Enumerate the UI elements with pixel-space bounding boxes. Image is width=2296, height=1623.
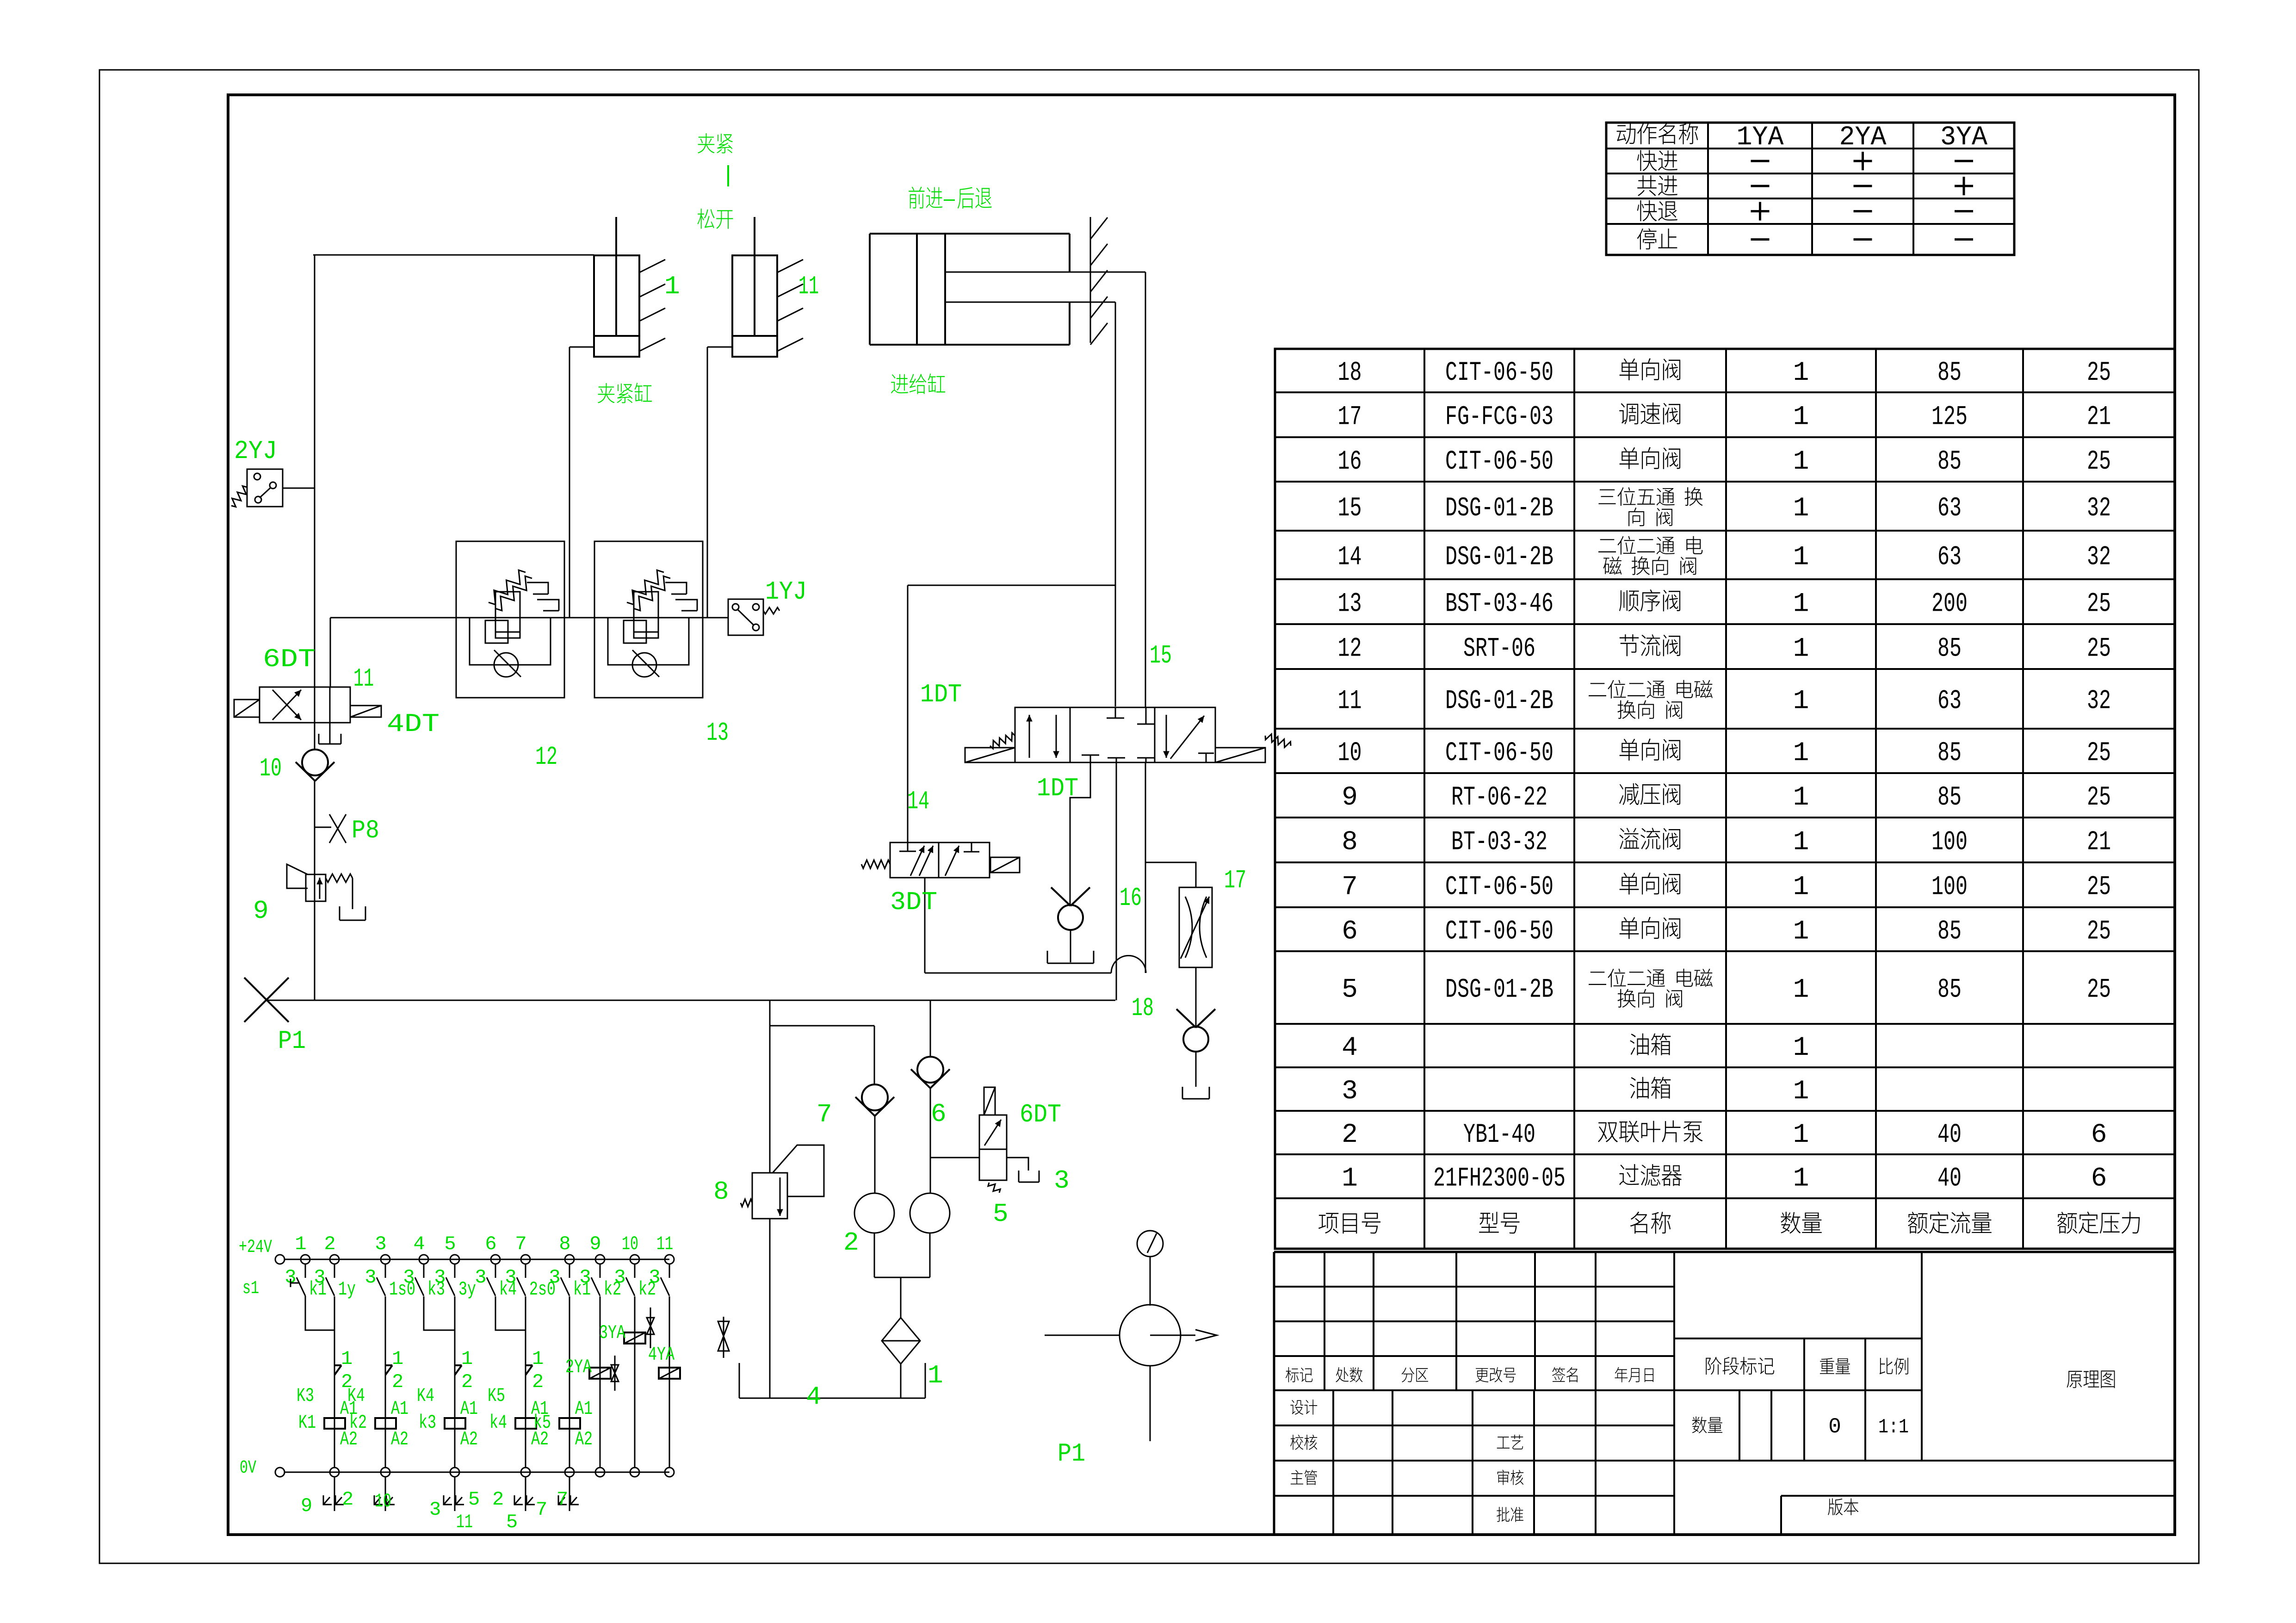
svg-text:DSG-01-2B: DSG-01-2B <box>1445 687 1553 717</box>
directional valve 15 (3-pos 5-way) <box>1015 707 1215 762</box>
svg-text:9: 9 <box>1342 783 1358 813</box>
svg-text:11: 11 <box>1338 687 1362 717</box>
terminal circle col 8 <box>565 1255 574 1264</box>
jog col1 to col2 <box>305 1296 334 1330</box>
svg-text:7: 7 <box>1342 873 1358 903</box>
svg-text:63: 63 <box>1937 543 1962 573</box>
svg-text:CIT-06-50: CIT-06-50 <box>1445 358 1553 388</box>
svg-text:1: 1 <box>1793 1033 1809 1063</box>
svg-text:4DT: 4DT <box>387 709 439 739</box>
svg-text:85: 85 <box>1937 975 1962 1005</box>
top contact k3 <box>423 1264 425 1278</box>
bottom terminal <box>665 1468 674 1477</box>
svg-text:CIT-06-50: CIT-06-50 <box>1445 917 1553 947</box>
limit switch below rail <box>569 1477 570 1511</box>
solenoid 2YA <box>589 1368 611 1379</box>
terminal circle col 5 <box>450 1255 459 1264</box>
relay coil k5 <box>559 1418 580 1429</box>
svg-text:7: 7 <box>557 1488 568 1511</box>
svg-text:15: 15 <box>1150 641 1172 670</box>
svg-text:1: 1 <box>1793 1164 1809 1194</box>
svg-text:1DT: 1DT <box>920 680 962 709</box>
svg-text:63: 63 <box>1937 494 1962 524</box>
svg-text:5: 5 <box>444 1233 456 1255</box>
svg-text:3: 3 <box>1054 1166 1070 1196</box>
svg-text:1: 1 <box>928 1361 943 1390</box>
svg-text:3: 3 <box>475 1266 486 1288</box>
feed cylinder 进给缸 <box>870 233 1070 235</box>
svg-text:200: 200 <box>1931 589 1968 619</box>
top contact 1s0 <box>385 1264 386 1278</box>
hold contact K4 <box>385 1364 392 1366</box>
svg-text:9: 9 <box>589 1233 601 1255</box>
svg-text:DSG-01-2B: DSG-01-2B <box>1445 543 1553 573</box>
relay coil k3 <box>445 1418 465 1429</box>
relief valve 8 <box>769 1000 771 1173</box>
svg-text:K4: K4 <box>417 1385 434 1407</box>
svg-text:6: 6 <box>931 1099 947 1129</box>
svg-text:2: 2 <box>324 1233 335 1255</box>
svg-text:3: 3 <box>505 1266 516 1288</box>
svg-text:2: 2 <box>492 1488 504 1511</box>
svg-text:6: 6 <box>2091 1164 2107 1194</box>
label 进给缸 <box>891 374 908 394</box>
flow control valve 17 <box>1179 887 1212 967</box>
svg-text:40: 40 <box>1937 1120 1962 1150</box>
svg-text:7: 7 <box>515 1233 526 1255</box>
svg-text:85: 85 <box>1937 358 1962 388</box>
svg-text:6: 6 <box>2091 1120 2107 1150</box>
terminal circle col 2 <box>330 1255 339 1264</box>
svg-text:1: 1 <box>1793 1120 1809 1150</box>
relay coil K1 <box>324 1418 345 1429</box>
svg-text:P8: P8 <box>352 816 379 845</box>
check valve 10 <box>302 750 328 775</box>
tank under check 16 <box>1047 951 1048 963</box>
svg-text:11: 11 <box>353 664 374 694</box>
bottom terminal <box>330 1468 339 1477</box>
svg-text:5: 5 <box>506 1511 518 1533</box>
svg-text:3YA: 3YA <box>599 1322 626 1344</box>
wire valve15 B port down <box>1145 762 1146 973</box>
svg-text:CIT-06-50: CIT-06-50 <box>1445 447 1553 477</box>
svg-text:3: 3 <box>549 1266 560 1288</box>
svg-text:25: 25 <box>2087 783 2111 813</box>
svg-text:6: 6 <box>485 1233 496 1255</box>
jog col6 to col7 <box>495 1296 526 1330</box>
svg-text:1: 1 <box>1793 494 1809 524</box>
svg-text:9: 9 <box>253 896 269 926</box>
svg-text:25: 25 <box>2087 634 2111 664</box>
svg-text:K3: K3 <box>297 1385 314 1407</box>
svg-text:10: 10 <box>1338 738 1362 768</box>
solenoid 4YA <box>659 1368 680 1379</box>
label 夹紧缸 <box>598 383 615 403</box>
svg-text:1: 1 <box>1793 589 1809 619</box>
svg-text:8: 8 <box>1342 828 1358 858</box>
solenoid valve 5 (6DT) <box>930 1157 979 1158</box>
+24V terminal <box>275 1255 285 1264</box>
svg-text:25: 25 <box>2087 589 2111 619</box>
ladder column wire <box>600 1296 601 1468</box>
svg-text:100: 100 <box>1931 828 1968 858</box>
check valve 6 <box>930 1000 931 1057</box>
main left riser wire <box>314 255 316 687</box>
svg-text:2YA: 2YA <box>565 1356 592 1378</box>
svg-text:11: 11 <box>656 1233 673 1255</box>
svg-text:2YJ: 2YJ <box>234 436 277 466</box>
svg-text:16: 16 <box>1338 447 1362 477</box>
svg-text:11: 11 <box>456 1511 473 1533</box>
svg-text:1: 1 <box>1793 543 1809 573</box>
clamp cylinder 11 <box>732 255 777 357</box>
terminal circle col 7 <box>521 1255 530 1264</box>
svg-text:RT-06-22: RT-06-22 <box>1451 783 1547 813</box>
pump source mark P1 (X) <box>244 978 289 1022</box>
svg-text:1: 1 <box>664 272 680 301</box>
svg-text:1:1: 1:1 <box>1878 1416 1909 1439</box>
svg-text:85: 85 <box>1937 917 1962 947</box>
svg-text:P1: P1 <box>278 1026 306 1056</box>
label | <box>727 165 729 186</box>
relay coil k4 <box>515 1418 536 1429</box>
svg-text:YB1-40: YB1-40 <box>1463 1120 1535 1150</box>
wire cap-side of cylinder 1 <box>569 347 594 348</box>
svg-text:2: 2 <box>843 1228 859 1258</box>
drain shutoff near tank 4 <box>723 1317 724 1358</box>
sequence valve 12 <box>456 541 564 698</box>
0V terminal <box>275 1468 285 1477</box>
wire valve15 mid port to bus <box>1116 762 1117 1000</box>
valve 14 pilot wire to A line <box>907 585 909 842</box>
terminal circle col 6 <box>491 1255 500 1264</box>
svg-text:1: 1 <box>1793 1077 1809 1107</box>
terminal circle col 3 <box>381 1255 390 1264</box>
svg-text:4: 4 <box>806 1382 822 1412</box>
inner drawing frame <box>228 95 2175 1535</box>
svg-text:8: 8 <box>713 1177 729 1207</box>
bottom terminal <box>521 1468 530 1477</box>
terminal circle col 4 <box>419 1255 428 1264</box>
svg-text:21FH2300-05: 21FH2300-05 <box>1433 1164 1566 1194</box>
svg-text:18: 18 <box>1338 358 1362 388</box>
bottom pressure bus <box>266 1000 1115 1001</box>
svg-text:1: 1 <box>1793 447 1809 477</box>
check valve 7 <box>862 1084 888 1110</box>
svg-text:A1: A1 <box>460 1398 478 1420</box>
svg-text:1: 1 <box>1342 1164 1358 1194</box>
svg-text:32: 32 <box>2087 543 2111 573</box>
svg-text:0V: 0V <box>240 1458 256 1479</box>
reducing valve 9 <box>306 874 326 901</box>
svg-text:k3: k3 <box>419 1412 436 1434</box>
check valve 18 <box>1183 1027 1208 1052</box>
svg-text:4: 4 <box>413 1233 425 1255</box>
ladder column wire <box>569 1296 570 1468</box>
svg-text:1YJ: 1YJ <box>765 577 807 607</box>
svg-text:7: 7 <box>536 1499 547 1521</box>
svg-text:3: 3 <box>429 1499 441 1521</box>
sequence valve 13 <box>594 541 703 698</box>
valve 11 pilot riser <box>330 618 331 687</box>
svg-text:1: 1 <box>1793 634 1809 664</box>
svg-text:11: 11 <box>798 272 819 301</box>
svg-text:21: 21 <box>2087 828 2111 858</box>
svg-text:12: 12 <box>1338 634 1362 664</box>
wire cap-side of cylinder 11 <box>707 347 732 348</box>
svg-text:3: 3 <box>649 1266 660 1288</box>
svg-text:FG-FCG-03: FG-FCG-03 <box>1445 403 1553 433</box>
wire B to valve 15 <box>1145 272 1146 707</box>
svg-text:13: 13 <box>1338 589 1362 619</box>
ladder +24V rail <box>285 1259 669 1260</box>
pump symbol P1 <box>1120 1305 1181 1366</box>
ladder 0V rail <box>285 1472 669 1473</box>
valve 15 right solenoid <box>1215 748 1265 762</box>
svg-text:6DT: 6DT <box>1020 1100 1061 1129</box>
relay coil k2 <box>375 1418 396 1429</box>
svg-text:1: 1 <box>1793 873 1809 903</box>
svg-text:10: 10 <box>375 1490 391 1512</box>
svg-text:K5: K5 <box>488 1385 505 1407</box>
svg-text:16: 16 <box>1120 883 1142 913</box>
svg-text:7: 7 <box>817 1100 832 1129</box>
ladder column wire <box>669 1296 670 1468</box>
svg-text:85: 85 <box>1937 447 1962 477</box>
svg-text:s1: s1 <box>242 1278 259 1299</box>
svg-text:1: 1 <box>1793 783 1809 813</box>
svg-text:12: 12 <box>535 742 557 772</box>
top contact k1 <box>569 1264 570 1278</box>
svg-text:A1: A1 <box>575 1398 593 1420</box>
svg-text:4: 4 <box>1342 1033 1358 1063</box>
title block <box>1274 1251 2175 1253</box>
svg-text:CIT-06-50: CIT-06-50 <box>1445 738 1553 768</box>
svg-text:10: 10 <box>260 754 282 783</box>
bottom terminal <box>595 1468 605 1477</box>
svg-text:2YA: 2YA <box>1839 123 1887 153</box>
svg-text:5: 5 <box>468 1488 480 1511</box>
svg-text:1: 1 <box>461 1348 473 1370</box>
solenoid 3YA <box>624 1332 645 1344</box>
wire 17 to check 18 <box>1195 967 1197 1027</box>
svg-text:1YA: 1YA <box>1737 123 1784 153</box>
svg-text:2: 2 <box>461 1371 473 1393</box>
throttle P8 stub <box>315 827 331 828</box>
svg-text:3y: 3y <box>458 1278 476 1301</box>
svg-text:9: 9 <box>301 1495 312 1517</box>
svg-text:k5: k5 <box>533 1412 551 1434</box>
wire rod-side of cylinder 1 <box>313 254 594 256</box>
svg-text:1DT: 1DT <box>1037 774 1078 803</box>
valve 11 drain + tank <box>329 723 331 744</box>
svg-text:13: 13 <box>706 718 729 748</box>
svg-text:125: 125 <box>1931 403 1968 433</box>
svg-text:25: 25 <box>2087 447 2111 477</box>
svg-text:BT-03-32: BT-03-32 <box>1451 828 1547 858</box>
check valve 16 <box>1058 905 1083 930</box>
svg-text:17: 17 <box>1338 403 1362 433</box>
svg-text:32: 32 <box>2087 494 2111 524</box>
svg-text:3DT: 3DT <box>890 887 937 917</box>
jog col4 to col5 <box>424 1296 455 1330</box>
tank under check 18 <box>1182 1087 1183 1099</box>
svg-text:100: 100 <box>1931 873 1968 903</box>
wire to flow valve 17 <box>1145 862 1196 887</box>
svg-text:4YA: 4YA <box>648 1344 675 1366</box>
label 夹紧 <box>698 133 715 154</box>
svg-text:5: 5 <box>1342 975 1358 1005</box>
wire pump2 to relief <box>770 1025 874 1027</box>
wall mount hatching <box>1090 217 1091 343</box>
hold contact K5 <box>526 1364 532 1366</box>
svg-text:1: 1 <box>1793 738 1809 768</box>
top contact k2 <box>634 1264 636 1278</box>
svg-text:6DT: 6DT <box>263 644 316 674</box>
control wire through valves 12/13 <box>330 617 728 619</box>
ladder column wire <box>525 1296 526 1468</box>
limit switch below rail <box>454 1477 456 1511</box>
svg-text:K1: K1 <box>298 1412 316 1434</box>
svg-text:3: 3 <box>314 1266 325 1288</box>
terminal circle col 9 <box>595 1255 605 1264</box>
svg-text:85: 85 <box>1937 634 1962 664</box>
svg-text:15: 15 <box>1338 494 1362 524</box>
svg-text:1: 1 <box>532 1348 544 1370</box>
bottom terminal <box>381 1468 390 1477</box>
svg-text:25: 25 <box>2087 917 2111 947</box>
terminal circle col 1 <box>301 1255 310 1264</box>
action table 动作名称/1YA/2YA/3YA <box>1606 123 2014 255</box>
ladder column wire <box>385 1296 386 1468</box>
top contact 1y <box>334 1264 335 1278</box>
svg-text:3: 3 <box>1342 1077 1358 1107</box>
svg-text:25: 25 <box>2087 738 2111 768</box>
svg-text:3: 3 <box>614 1266 625 1288</box>
limit switch below rail <box>525 1477 526 1511</box>
svg-text:3: 3 <box>434 1266 446 1288</box>
svg-text:14: 14 <box>907 787 929 816</box>
svg-text:2: 2 <box>532 1371 544 1393</box>
svg-text:5: 5 <box>993 1199 1009 1229</box>
pressure gauge <box>1137 1231 1163 1257</box>
solenoid valve 11 (2-pos) <box>260 687 350 723</box>
svg-text:DSG-01-2B: DSG-01-2B <box>1445 494 1553 524</box>
bottom terminal <box>565 1468 574 1477</box>
solenoid valve 14 (3DT) <box>890 842 990 878</box>
svg-text:1y: 1y <box>338 1278 356 1301</box>
top contact k2 <box>600 1264 601 1278</box>
svg-text:A2: A2 <box>460 1428 478 1450</box>
parts list table (BOM) <box>1275 349 2175 1249</box>
pressure switch 2YJ <box>247 469 283 507</box>
svg-text:+24V: +24V <box>239 1237 272 1258</box>
svg-text:32: 32 <box>2087 687 2111 717</box>
label 前进-后退 <box>909 186 924 208</box>
pressure switch 1YJ <box>728 599 763 635</box>
svg-text:1: 1 <box>1793 403 1809 433</box>
svg-text:1: 1 <box>1793 917 1809 947</box>
svg-text:8: 8 <box>559 1233 570 1255</box>
piston rod + wires to valve 15 <box>945 272 1145 273</box>
bowtie valve beside 3YA <box>650 1307 651 1348</box>
ladder column wire <box>334 1296 335 1468</box>
svg-text:21: 21 <box>2087 403 2111 433</box>
svg-text:k4: k4 <box>489 1412 507 1434</box>
svg-text:1: 1 <box>295 1233 306 1255</box>
svg-text:3: 3 <box>579 1266 591 1288</box>
svg-text:0: 0 <box>1828 1415 1841 1439</box>
svg-text:1: 1 <box>1793 358 1809 388</box>
svg-text:2: 2 <box>392 1371 403 1393</box>
hold contact K3 <box>334 1364 341 1366</box>
svg-text:17: 17 <box>1224 866 1246 895</box>
top contact k4 <box>495 1264 496 1278</box>
label 松开 <box>698 209 715 229</box>
valve 14 out wire with crossing hop <box>924 878 926 973</box>
svg-text:6: 6 <box>1342 917 1358 947</box>
button hook on k1 <box>291 1282 300 1284</box>
svg-text:25: 25 <box>2087 975 2111 1005</box>
filter 1 <box>882 1318 920 1364</box>
svg-text:3: 3 <box>375 1233 386 1255</box>
svg-text:85: 85 <box>1937 783 1962 813</box>
svg-text:3YA: 3YA <box>1940 123 1987 153</box>
ladder column wire <box>634 1296 636 1468</box>
svg-text:14: 14 <box>1338 543 1362 573</box>
svg-text:25: 25 <box>2087 358 2111 388</box>
svg-text:A1: A1 <box>391 1398 408 1420</box>
svg-text:BST-03-46: BST-03-46 <box>1445 589 1553 619</box>
svg-text:1: 1 <box>1793 975 1809 1005</box>
top contact 3y <box>454 1264 456 1278</box>
top contact 2s0 <box>525 1264 526 1278</box>
svg-text:1: 1 <box>1793 687 1809 717</box>
wire valve15 to check 16 <box>1070 762 1090 905</box>
bowtie valve beside 2YA <box>614 1356 616 1391</box>
bottom terminal <box>450 1468 459 1477</box>
limit switch below rail <box>334 1477 335 1511</box>
hold contact K4 <box>455 1364 462 1366</box>
clamp cylinder 1 (夹紧缸) <box>594 255 639 357</box>
svg-text:2: 2 <box>342 1488 353 1511</box>
svg-text:3: 3 <box>365 1266 376 1288</box>
limit switch below rail <box>385 1477 386 1511</box>
svg-text:85: 85 <box>1937 738 1962 768</box>
svg-text:A2: A2 <box>575 1428 593 1450</box>
double vane pump 2 <box>854 1193 894 1233</box>
svg-text:1: 1 <box>1793 828 1809 858</box>
svg-text:DSG-01-2B: DSG-01-2B <box>1445 975 1553 1005</box>
terminal circle col 11 <box>665 1255 674 1264</box>
svg-text:k2: k2 <box>349 1412 367 1434</box>
svg-text:A2: A2 <box>391 1428 408 1450</box>
svg-text:CIT-06-50: CIT-06-50 <box>1445 873 1553 903</box>
svg-text:25: 25 <box>2087 873 2111 903</box>
top contact k1 <box>305 1264 306 1278</box>
terminal circle col 10 <box>630 1255 639 1264</box>
svg-text:2: 2 <box>1342 1120 1358 1150</box>
valve 15 left solenoid <box>965 748 1015 762</box>
svg-text:P1: P1 <box>1058 1439 1085 1468</box>
svg-text:3: 3 <box>403 1266 415 1288</box>
bottom terminal <box>630 1468 639 1477</box>
svg-text:10: 10 <box>622 1233 638 1255</box>
svg-text:1: 1 <box>341 1348 353 1370</box>
svg-text:40: 40 <box>1937 1164 1962 1194</box>
svg-text:SRT-06: SRT-06 <box>1463 634 1535 664</box>
top contact col11 <box>669 1264 670 1278</box>
